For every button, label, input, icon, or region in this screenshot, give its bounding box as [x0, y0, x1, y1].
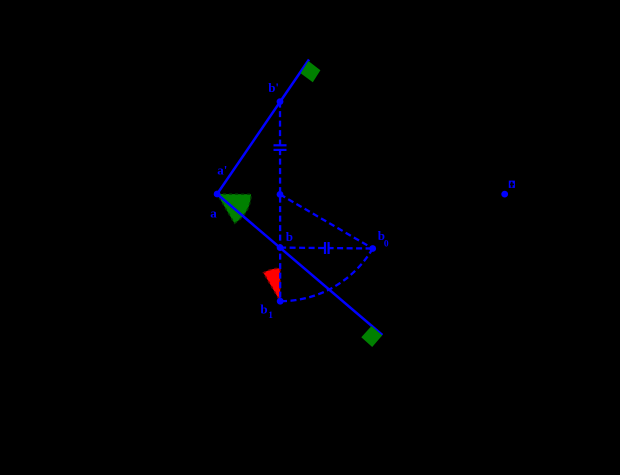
slider block at end of upper rod (green square): [301, 61, 321, 82]
isolated point at right: [501, 191, 508, 198]
odd square-with-cross label of isolated point: [509, 181, 515, 188]
svg-text:b: b: [286, 229, 293, 244]
svg-text:b': b': [268, 80, 279, 95]
point m (centre of arc, unlabeled): [277, 191, 284, 198]
svg-text:a': a': [217, 162, 227, 177]
slider block at end of lower rod (green square): [361, 326, 382, 347]
angle sector at a (green wedge): [217, 194, 251, 223]
link a-b (solid rod to lower-right): [217, 194, 382, 335]
svg-text:a: a: [210, 205, 217, 220]
point b0: [369, 245, 376, 252]
point b: [277, 244, 284, 251]
angle sector at b1 (red wedge): [263, 268, 280, 301]
svg-text:b: b: [260, 302, 267, 317]
double tick mark on segment b-b0: [325, 242, 329, 254]
svg-text:0: 0: [384, 239, 389, 249]
point b1: [277, 298, 284, 305]
link a-b' (solid rod to upper-right): [217, 60, 309, 195]
point b': [277, 98, 284, 105]
point a / a' (pivot): [214, 191, 221, 198]
vertical dashed construction line b' to b1: [279, 102, 282, 302]
double tick mark on segment b'-m: [274, 145, 287, 150]
dashed arc b0 to b1 (circle centred at m): [280, 249, 373, 302]
dashed horizontal segment b to b0: [280, 246, 373, 249]
svg-text:1: 1: [268, 311, 273, 321]
dashed radius m to b0: [280, 194, 373, 248]
